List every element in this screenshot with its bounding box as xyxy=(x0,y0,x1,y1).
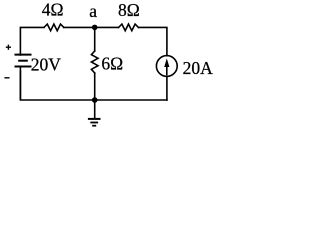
battery V1 plates xyxy=(15,55,32,67)
battery stub bottom xyxy=(19,67,21,101)
resistor R3 6ohm vertical zigzag xyxy=(91,51,98,73)
svg-text:20V: 20V xyxy=(31,54,62,74)
wire from current source bottom to bottom-right corner xyxy=(166,76,168,100)
bottom junction dot xyxy=(92,97,98,103)
minus sign xyxy=(4,77,9,79)
svg-text:20A: 20A xyxy=(183,58,214,78)
ground stub xyxy=(94,100,96,118)
svg-text:a: a xyxy=(89,1,97,21)
svg-text:4Ω: 4Ω xyxy=(42,0,64,19)
wire node a down to 6-ohm xyxy=(94,27,96,51)
svg-text:8Ω: 8Ω xyxy=(118,0,140,20)
plus sign xyxy=(6,45,11,50)
bottom wire xyxy=(20,72,167,101)
current source arrow xyxy=(166,64,168,75)
battery stub top xyxy=(19,54,21,55)
resistor R2 8ohm zigzag xyxy=(119,24,139,31)
wire 6-ohm to bottom wire xyxy=(94,73,96,100)
resistor R1 4ohm zigzag xyxy=(44,24,64,31)
current source I1 circle xyxy=(156,56,177,77)
wire from 4-ohm to node a and to 8-ohm xyxy=(64,26,119,28)
ground symbol bars xyxy=(88,119,101,126)
svg-text:6Ω: 6Ω xyxy=(101,54,123,74)
node a junction dot xyxy=(92,25,98,31)
wire top-right corner down to current source xyxy=(138,27,167,55)
wire top-left horizontal (corner to 4-ohm resistor) xyxy=(20,27,44,55)
